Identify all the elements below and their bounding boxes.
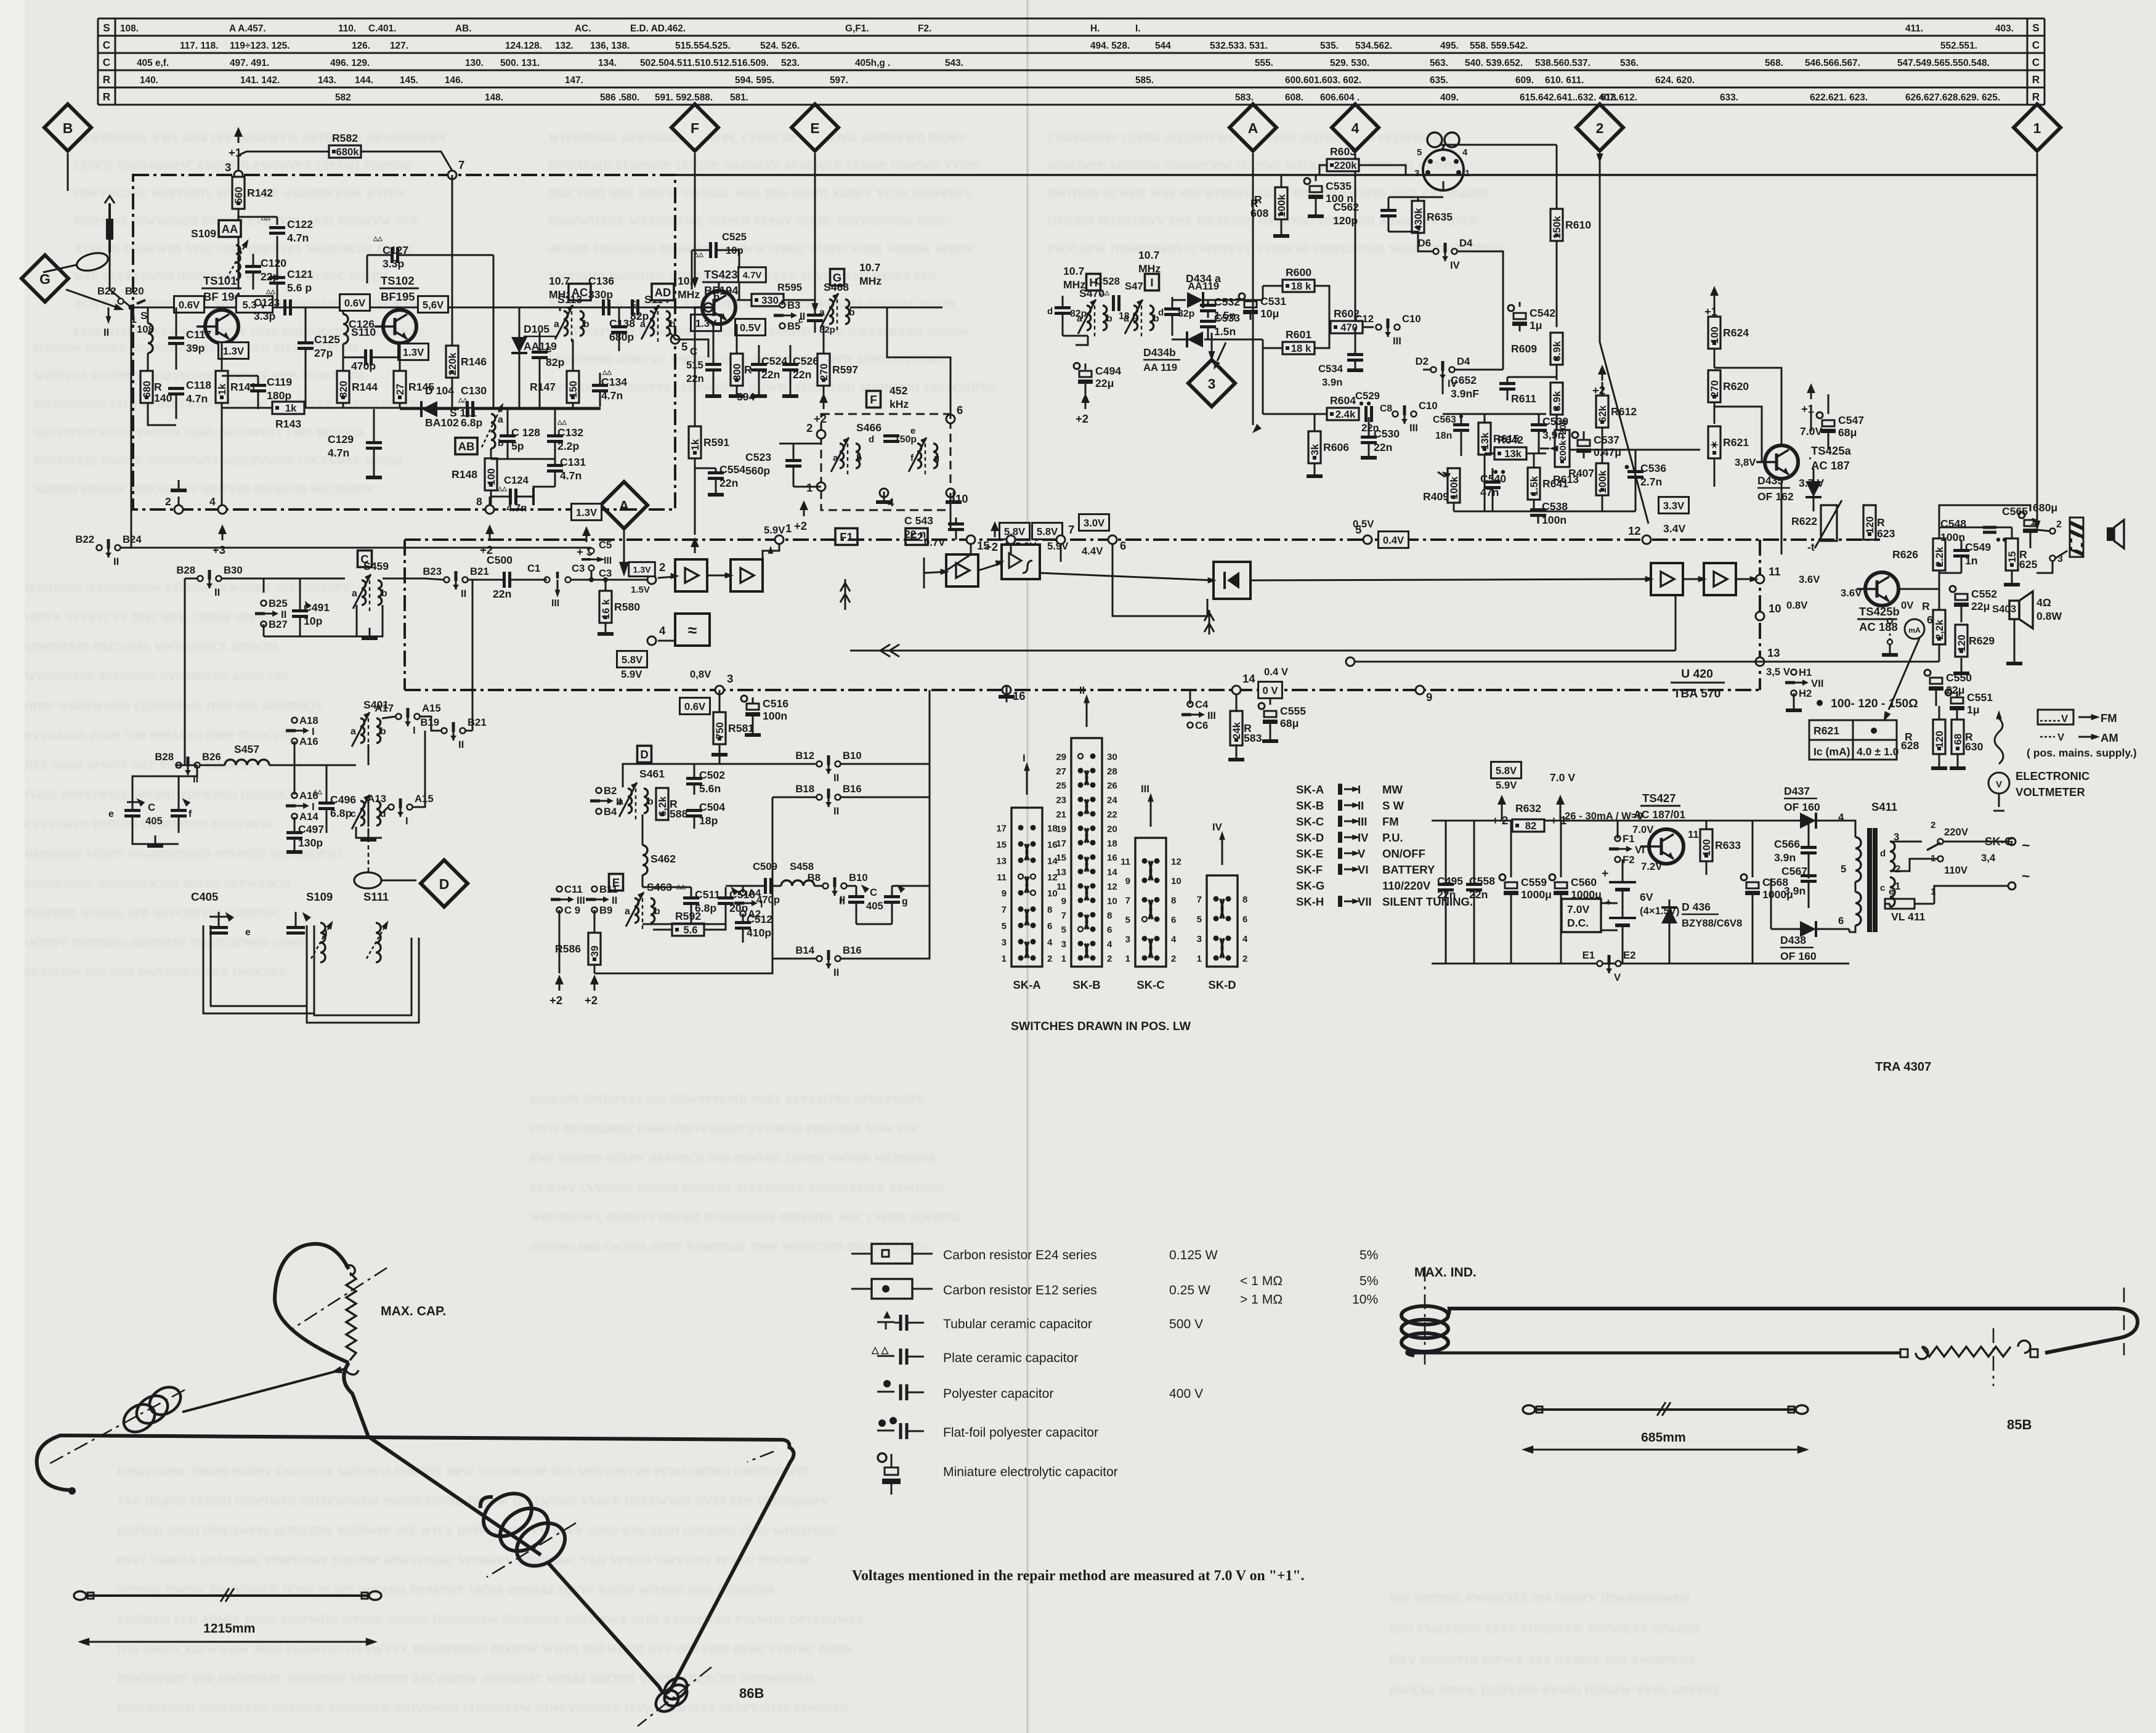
IC pin node 16	[1002, 686, 1026, 702]
svg-text:a: a	[554, 319, 559, 330]
svg-text:4.7n: 4.7n	[186, 392, 208, 405]
svg-text:11: 11	[997, 872, 1007, 883]
wire TS101 emitter	[221, 343, 223, 371]
label 1.3V +3 bottom	[571, 504, 601, 521]
svg-text:C: C	[103, 39, 110, 51]
svg-text:R146: R146	[461, 355, 487, 368]
svg-text:18 k: 18 k	[1291, 280, 1311, 292]
svg-text:SK-A: SK-A	[1296, 783, 1324, 796]
svg-text:c: c	[798, 315, 803, 325]
svg-text:+ 2: + 2	[1492, 814, 1508, 827]
svg-text:7: 7	[1002, 905, 1007, 915]
svg-text:0.125 W: 0.125 W	[1169, 1248, 1218, 1262]
svg-text:B23: B23	[423, 566, 442, 577]
svg-text:5%: 5%	[1360, 1274, 1379, 1288]
wire det to amp4 bus	[1250, 579, 1651, 580]
resistor R144 820	[337, 371, 378, 403]
svg-text:586 .580.: 586 .580.	[600, 92, 639, 103]
filter pin 1	[806, 481, 825, 494]
svg-text:△△: △△	[261, 214, 270, 221]
svg-text:C 543: C 543	[904, 514, 933, 527]
wire pin7 internal	[1060, 544, 1062, 562]
svg-text:400 V: 400 V	[1169, 1387, 1203, 1401]
svg-text:III: III	[1409, 422, 1418, 434]
svg-text:11: 11	[1121, 857, 1130, 867]
connector diamond F	[671, 104, 718, 151]
resistor R592 5.6	[672, 910, 704, 936]
resistor R141 1k	[216, 371, 256, 403]
svg-text:C134: C134	[601, 376, 627, 388]
svg-text:18n: 18n	[1435, 431, 1452, 441]
wire amp4-5	[1683, 578, 1704, 580]
svg-text:C512: C512	[747, 913, 772, 925]
svg-text:10: 10	[1769, 602, 1781, 615]
svg-text:I: I	[1023, 752, 1026, 764]
voltmeter squiggle	[1995, 718, 2003, 764]
svg-text:1: 1	[1125, 954, 1130, 964]
IF transformer S401 ab	[351, 712, 386, 752]
svg-text:C529: C529	[1355, 390, 1380, 402]
wire S111 bottom join	[491, 448, 555, 459]
switch A13/A15	[367, 793, 433, 827]
IC pin node 6	[1108, 535, 1126, 552]
svg-text:C567: C567	[1781, 865, 1807, 877]
svg-text:SK-E: SK-E	[1296, 847, 1323, 860]
svg-text:P.U.: P.U.	[1382, 831, 1403, 844]
svg-text:R609: R609	[1511, 343, 1537, 355]
svg-text:eoaewnxox wxemexwc areern xeea: eoaewnxox wxemexwc areern xeeav onmc mnv…	[548, 210, 946, 229]
IF transformer S466 a-b	[831, 437, 860, 477]
+1 right	[1801, 383, 1815, 415]
IC pin node 5	[1355, 523, 1372, 544]
svg-text:85B: 85B	[2007, 1417, 2032, 1432]
svg-text:R610: R610	[1565, 219, 1591, 231]
zener D436	[1661, 907, 1677, 923]
label G box	[830, 269, 845, 286]
svg-text:16 k: 16 k	[600, 599, 612, 619]
resistor R613 100k	[1553, 463, 1608, 495]
wire G arrow to antenna input	[66, 290, 117, 307]
antenna 85B bottom wire	[1414, 1352, 1900, 1355]
svg-text:II: II	[461, 588, 466, 599]
svg-text:608: 608	[1250, 207, 1269, 219]
node 3 top	[225, 161, 243, 179]
limiter block	[1002, 545, 1040, 579]
svg-text:III: III	[551, 598, 559, 609]
svg-text:sxuuvvsau wmaemwxm naeeu ocewv: sxuuvvsau wmaemwxm naeeu ocewvacw	[25, 873, 292, 891]
resistor R642 13k	[1494, 434, 1526, 460]
svg-text:C120: C120	[261, 257, 286, 269]
ghost text block under-schematic	[530, 1089, 961, 1254]
svg-text:V: V	[1358, 847, 1366, 860]
antenna 85B top wire	[1448, 1309, 2138, 1353]
wire E sect bus	[642, 887, 691, 888]
svg-text:500 V: 500 V	[1169, 1317, 1203, 1331]
svg-text:606.604 .: 606.604 .	[1320, 92, 1360, 103]
svg-text:MW: MW	[1382, 783, 1403, 796]
switch B25/B27	[255, 598, 288, 630]
svg-text:C121: C121	[287, 268, 313, 280]
svg-text:△△: △△	[458, 397, 468, 404]
svg-text:8: 8	[1047, 905, 1052, 915]
svg-text:24k: 24k	[1231, 721, 1242, 739]
svg-text:3,4: 3,4	[1981, 852, 1996, 864]
+2 under R597	[814, 393, 828, 425]
svg-text:~: ~	[2022, 837, 2030, 853]
SK switch function legend	[1296, 783, 1473, 908]
svg-text:18 k: 18 k	[1291, 343, 1311, 354]
capacitor C500 22n	[505, 572, 510, 588]
diode D434b AA119	[1187, 331, 1203, 347]
svg-text:540. 539.652.: 540. 539.652.	[1465, 58, 1523, 68]
antenna 86B long wire	[548, 1447, 794, 1693]
wire node8 stub	[489, 497, 491, 505]
svg-text:B22: B22	[75, 534, 94, 545]
svg-text:C552: C552	[1971, 588, 1997, 600]
svg-text:R: R	[103, 91, 111, 103]
IF transformer S113	[554, 305, 590, 344]
svg-text:0.6V: 0.6V	[344, 297, 366, 309]
wire double arrow up1	[845, 579, 846, 610]
capacitor C559 1000u	[1499, 874, 1552, 901]
capacitor d82p I	[1164, 309, 1180, 315]
svg-text:nvcr vsnexs uexeosac emeenwe s: nvcr vsnexs uexeosac emeenwe smcme smevm…	[117, 1549, 811, 1568]
svg-text:C494: C494	[1095, 365, 1121, 377]
+2 above R612	[1592, 365, 1607, 397]
wire transformer top	[1849, 821, 1855, 837]
svg-text:3,5 V: 3,5 V	[1766, 666, 1791, 678]
svg-text:III: III	[1358, 815, 1367, 828]
wire S461 bus	[623, 690, 719, 787]
svg-text:C511: C511	[695, 888, 720, 901]
svg-text:82: 82	[1525, 820, 1537, 832]
svg-text:C539: C539	[1542, 415, 1568, 428]
svg-text:+2: +2	[1592, 384, 1605, 397]
svg-text:609.: 609.	[1515, 75, 1534, 86]
svg-text:a: a	[1077, 314, 1082, 324]
svg-text:R633: R633	[1715, 839, 1741, 851]
svg-text:39: 39	[589, 946, 601, 957]
svg-text:3: 3	[727, 672, 733, 685]
svg-text:6: 6	[1107, 925, 1112, 935]
capacitor C138 680p	[609, 317, 635, 343]
connector diamond 3	[1188, 360, 1235, 407]
switch block SK-A	[996, 808, 1058, 991]
svg-text:I: I	[405, 815, 408, 827]
svg-text:3.6V: 3.6V	[1799, 574, 1820, 585]
svg-text:4: 4	[1838, 811, 1844, 823]
svg-text:C500: C500	[487, 554, 513, 566]
svg-text:4.7n: 4.7n	[328, 447, 349, 459]
wire bottom het gnd bus	[1454, 511, 1635, 513]
svg-text:F: F	[870, 393, 877, 406]
svg-text:130p: 130p	[298, 837, 323, 849]
varicap gang e	[209, 928, 228, 933]
svg-text:26: 26	[1107, 781, 1117, 791]
resistor R629 120	[1955, 625, 1995, 657]
IC pin node 9	[1416, 686, 1432, 704]
capacitor C562 120p	[1333, 201, 1396, 227]
IC pin node 2	[647, 561, 665, 584]
switch A18/A16	[286, 715, 318, 747]
IF transformer S463	[625, 892, 660, 931]
svg-text:C1: C1	[527, 562, 540, 574]
svg-text:594. 595.: 594. 595.	[735, 75, 774, 86]
svg-text:563.: 563.	[1430, 58, 1448, 68]
diode D434a AA119	[1187, 292, 1203, 308]
svg-text:12: 12	[1628, 524, 1641, 537]
resistor R147 150	[530, 371, 579, 403]
svg-text:27: 27	[1056, 766, 1066, 777]
svg-text:6: 6	[1838, 915, 1844, 927]
svg-text:8: 8	[1107, 911, 1112, 921]
svg-text:2.2p: 2.2p	[557, 440, 579, 452]
svg-text:ON/OFF: ON/OFF	[1382, 847, 1425, 860]
resistor R146 220k	[446, 346, 487, 378]
svg-text:B3: B3	[787, 299, 800, 311]
svg-text:1.3V: 1.3V	[633, 564, 652, 574]
svg-text:502.504.511.510.512.516.509.: 502.504.511.510.512.516.509.	[640, 58, 769, 68]
svg-text:9: 9	[1002, 888, 1007, 899]
+1 arrow at node 3	[229, 127, 243, 159]
svg-text:III: III	[1141, 783, 1149, 795]
label F1 box	[835, 529, 857, 545]
svg-text:SK-F: SK-F	[1296, 863, 1323, 876]
svg-text:10%: 10%	[1352, 1293, 1378, 1307]
svg-text:R597: R597	[832, 363, 858, 376]
resistor R597 270	[817, 354, 858, 386]
svg-text:Ic (mA): Ic (mA)	[1814, 745, 1850, 758]
svg-text:4Ω: 4Ω	[2036, 596, 2051, 609]
svg-text:1: 1	[1061, 954, 1066, 964]
svg-text:13k: 13k	[1504, 448, 1522, 460]
svg-text:28: 28	[1107, 766, 1117, 777]
svg-text:R620: R620	[1723, 380, 1749, 392]
capacitor C535 100n	[1304, 178, 1353, 205]
svg-text:B8: B8	[808, 872, 821, 883]
antenna 85B coil	[1401, 1306, 1448, 1325]
capacitor C652 3.9nF	[1451, 374, 1515, 400]
svg-text:S461: S461	[639, 768, 665, 780]
svg-text:5,6V: 5,6V	[423, 299, 444, 310]
svg-text:6: 6	[1171, 915, 1176, 925]
svg-text:a: a	[625, 906, 630, 917]
svg-text:5: 5	[681, 340, 687, 353]
svg-text:aon csacramo xexv vonorooc vse: aon csacramo xexv vonorooc vsevnces sewe…	[1389, 1618, 1701, 1636]
svg-text:f: f	[188, 809, 192, 819]
antenna 85B link wire	[1534, 1408, 1797, 1411]
svg-text:mecuwuee vse eaconwrc xeaseovr: mecuwuee vse eaconwrc xeaseovr vexmnm ax…	[117, 1668, 814, 1686]
svg-text:147.: 147.	[565, 75, 583, 86]
resistor R603 220k	[1327, 145, 1359, 171]
svg-text:A15: A15	[422, 702, 441, 714]
svg-text:2: 2	[165, 495, 171, 508]
svg-text:127.: 127.	[390, 41, 408, 51]
wire top het bus	[1443, 413, 1546, 415]
svg-text:2: 2	[1242, 954, 1247, 964]
antenna 85B axis marks	[2123, 1288, 2125, 1355]
label I box	[1145, 274, 1159, 291]
switch B3/B5	[774, 299, 805, 332]
antenna 86B balloon loop	[344, 1363, 541, 1555]
capacitor C1 C3 switch	[545, 577, 550, 583]
svg-text:9: 9	[1061, 896, 1066, 906]
svg-text:A14: A14	[299, 811, 318, 822]
svg-text:543.: 543.	[945, 58, 963, 68]
table row 1 numbers	[120, 23, 2014, 34]
svg-text:C534: C534	[1318, 363, 1343, 375]
svg-text:130.: 130.	[465, 58, 484, 68]
svg-text:I: I	[312, 726, 315, 737]
svg-text:7: 7	[1061, 911, 1066, 921]
svg-text:B16: B16	[843, 944, 862, 956]
antenna loop symbol	[75, 250, 110, 274]
svg-text:△△: △△	[312, 789, 322, 795]
svg-text:22n: 22n	[493, 588, 511, 600]
svg-text:47n: 47n	[1480, 486, 1499, 498]
svg-text:D4: D4	[1459, 237, 1473, 249]
svg-text:B26: B26	[202, 751, 221, 763]
switch A17/A15	[375, 702, 440, 736]
diode D438 OF160	[1800, 921, 1816, 937]
svg-text:0.7V: 0.7V	[924, 537, 946, 548]
svg-text:29: 29	[1056, 752, 1066, 762]
svg-text:R621: R621	[1723, 436, 1749, 448]
svg-text:68μ: 68μ	[1838, 426, 1857, 439]
svg-text:3.9k: 3.9k	[1551, 341, 1563, 361]
wire S459 sec to B23	[383, 578, 425, 580]
voltage 0.4V node5	[1378, 532, 1408, 548]
svg-text:rvaar oovcrwrcc uecem vuswnou: rvaar oovcrwrcc uecem vuswnou mrsuocx	[25, 784, 296, 802]
svg-text:rusavsuew moau euoev csncsssx: rusavsuew moau euoev csncsssx saoravo mw…	[117, 1461, 809, 1479]
svg-text:623: 623	[1877, 527, 1895, 540]
psu bottom wire	[1432, 963, 1849, 965]
capacitor C510 20p	[718, 888, 755, 914]
svg-text:C129: C129	[328, 433, 354, 445]
svg-text:100- 120 - 150Ω: 100- 120 - 150Ω	[1831, 697, 1918, 710]
svg-text:22n: 22n	[761, 368, 780, 381]
capacitor C524 22n	[751, 355, 787, 381]
svg-text:5.8V: 5.8V	[1496, 765, 1517, 776]
svg-text:A16: A16	[299, 736, 318, 747]
legend tubular ceramic cap	[883, 1311, 891, 1318]
svg-text:e: e	[245, 927, 251, 938]
coil S462	[642, 845, 647, 875]
svg-text:B4: B4	[604, 806, 617, 818]
label AA box	[219, 221, 241, 237]
svg-text:TS102: TS102	[381, 274, 415, 287]
page fold line	[1027, 0, 1029, 1733]
svg-text:523.: 523.	[781, 58, 800, 68]
svg-text:smemrxm nxcrcexe vwvoxsncx ams: smemrxm nxcrcexe vwvoxsncx amscrn	[25, 636, 278, 654]
thermistor R622	[1821, 505, 1837, 541]
resistor R140 680	[140, 371, 162, 403]
svg-text:Carbon resistor E24 series: Carbon resistor E24 series	[943, 1248, 1097, 1262]
svg-text:R622: R622	[1791, 515, 1817, 527]
svg-text:405 e,f.: 405 e,f.	[137, 58, 169, 68]
svg-text:3: 3	[225, 161, 231, 174]
svg-text:U 420: U 420	[1681, 667, 1713, 681]
svg-text:ercrr mxmuansc rraan mcvcuusor: ercrr mxmuansc rraan mcvcuusor sxwarxu e…	[530, 1118, 918, 1136]
IC pin node 14	[1232, 672, 1255, 694]
capacitor C525 10p	[711, 242, 716, 258]
svg-text:270: 270	[1709, 380, 1720, 397]
svg-text:OF 162: OF 162	[1757, 490, 1794, 503]
wire IV line	[1442, 378, 1444, 394]
svg-text:C: C	[870, 887, 877, 898]
wire S459 gnd legs	[264, 605, 357, 636]
svg-text:B10: B10	[849, 872, 868, 883]
svg-text:D438: D438	[1780, 934, 1806, 946]
svg-text:300: 300	[731, 363, 743, 381]
svg-text:V: V	[2057, 731, 2065, 743]
svg-text:7.0V: 7.0V	[1632, 824, 1654, 835]
svg-text:13: 13	[1056, 867, 1066, 878]
resistor R635 430k	[1412, 201, 1453, 233]
svg-text:II: II	[1079, 684, 1085, 696]
svg-text:26 - 30mA / W=0: 26 - 30mA / W=0	[1565, 810, 1643, 822]
filter pin 10	[946, 489, 968, 505]
svg-text:A A.457.: A A.457.	[229, 23, 266, 34]
svg-text:220k: 220k	[447, 352, 458, 376]
resistor R632 82	[1512, 802, 1544, 832]
svg-text:100: 100	[1701, 839, 1712, 856]
svg-text:△△: △△	[265, 288, 275, 295]
capacitor C132 2.2p	[547, 426, 583, 452]
table row 5 numbers	[335, 92, 2000, 103]
svg-text:TS425b: TS425b	[1859, 605, 1900, 618]
svg-text:0.25 W: 0.25 W	[1169, 1283, 1210, 1297]
svg-text:II: II	[1358, 799, 1364, 812]
svg-text:ewr ssuenn ooxnv axvvncn svo m: ewr ssuenn ooxnv axvvncn svo mwvue cuven…	[530, 1148, 936, 1166]
svg-text:220k: 220k	[1334, 160, 1357, 171]
svg-text:15: 15	[996, 840, 1007, 850]
svg-text:B25: B25	[269, 598, 288, 609]
svg-text:1.3V: 1.3V	[223, 345, 245, 357]
battery cells	[1609, 881, 1636, 883]
svg-text:5p: 5p	[511, 440, 524, 452]
svg-text:xamnn eesouv eeecuouve ueervm: xamnn eesouv eeecuouve ueervm mvaxrm sec…	[34, 479, 373, 497]
voltage 1.3V under node6	[691, 315, 721, 331]
svg-text:1.3V: 1.3V	[403, 346, 424, 358]
svg-text:14: 14	[1242, 672, 1255, 685]
svg-text:C 128: C 128	[511, 426, 540, 439]
voltage 0.6V TS102	[339, 294, 370, 311]
svg-text:22μ: 22μ	[1971, 600, 1990, 612]
voltage 4.7V TS423	[739, 267, 766, 282]
svg-text:C: C	[103, 56, 110, 68]
svg-text:591. 592.588.: 591. 592.588.	[655, 92, 713, 103]
wire top supply rail	[675, 174, 2037, 176]
svg-text:532.533. 531.: 532.533. 531.	[1210, 41, 1268, 51]
svg-text:C562: C562	[1333, 201, 1359, 213]
svg-text:△△: △△	[694, 251, 703, 258]
svg-text:680: 680	[141, 381, 153, 398]
svg-text:Miniature electrolytic capacit: Miniature electrolytic capacitor	[943, 1465, 1118, 1479]
resistor R582 680k	[329, 132, 361, 158]
capacitor C121 5.6p	[269, 268, 313, 294]
svg-text:V: V	[1996, 779, 2002, 790]
node 5 under S114	[671, 335, 687, 353]
dimension 1215mm	[85, 1641, 370, 1643]
svg-text:Plate ceramic capacitor: Plate ceramic capacitor	[943, 1351, 1078, 1365]
svg-text:AC 187: AC 187	[1811, 459, 1850, 472]
capacitor C127 3.3p	[383, 244, 408, 270]
voltage 5.3V at TS101 collector	[236, 296, 272, 313]
legend resistor E24 symbol	[851, 1253, 872, 1255]
svg-text:630: 630	[1965, 741, 1984, 753]
svg-text:C.401.: C.401.	[368, 23, 396, 34]
